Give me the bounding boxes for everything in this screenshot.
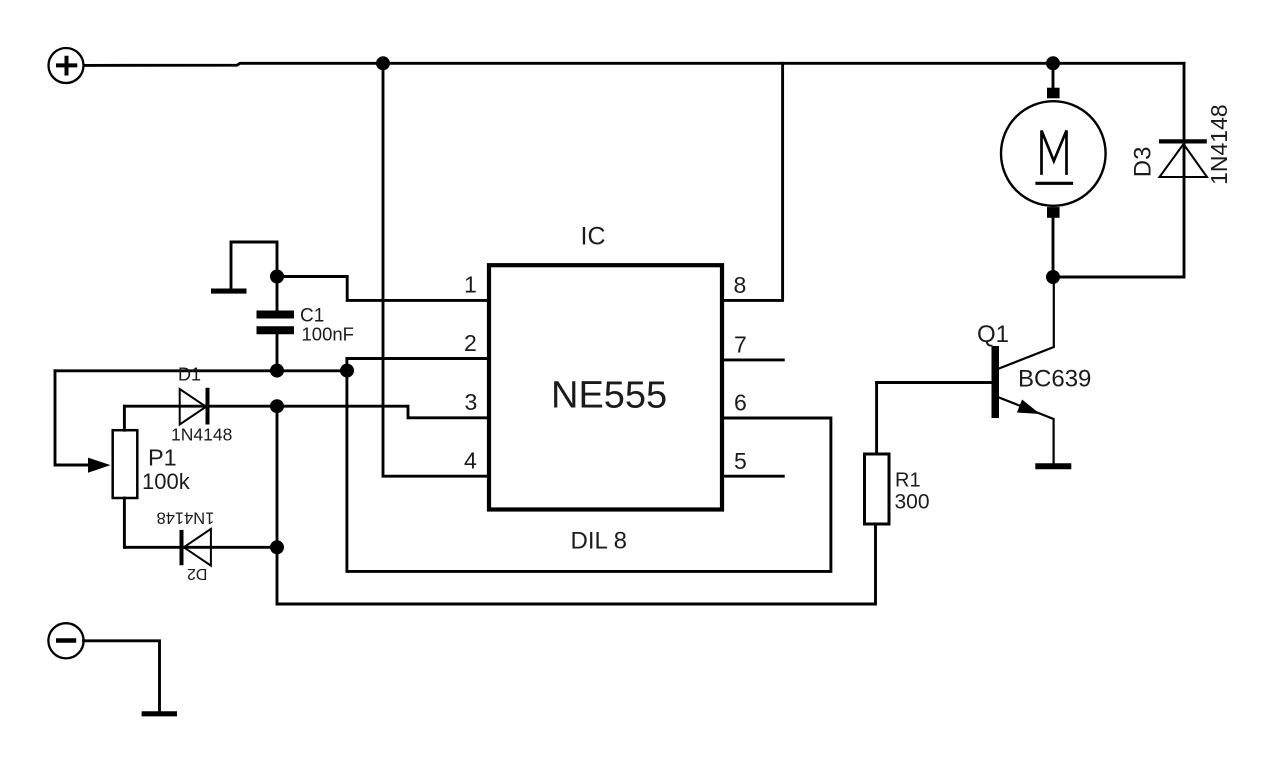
svg-text:D1: D1 (178, 365, 201, 385)
wire output node to R1 (277, 406, 876, 604)
svg-text:3: 3 (465, 389, 478, 415)
IC NE555 box (489, 265, 722, 509)
svg-text:4: 4 (464, 448, 477, 474)
svg-text:R1: R1 (895, 470, 921, 492)
svg-text:P1: P1 (148, 445, 177, 471)
junction node motor branch on rail (1046, 56, 1060, 70)
svg-text:5: 5 (734, 448, 747, 474)
wire D3 cathode to rail (1183, 63, 1186, 139)
node C1 top junction (270, 270, 284, 284)
svg-text:D2: D2 (187, 565, 208, 582)
motor M1 (1001, 63, 1106, 277)
svg-text:1: 1 (464, 272, 477, 298)
minus terminal (48, 623, 83, 658)
junction node pins 2-6 (340, 364, 354, 378)
svg-text:BC639: BC639 (1018, 366, 1091, 393)
svg-text:2: 2 (464, 330, 477, 356)
wire minus to ground (84, 641, 160, 711)
wire to pin 1 (277, 277, 487, 301)
svg-text:7: 7 (734, 332, 747, 358)
ground symbol at minus terminal (142, 711, 177, 716)
svg-text:IC: IC (581, 222, 606, 250)
diode D3 (1159, 141, 1207, 177)
plus terminal (49, 48, 84, 83)
diode D1 (124, 388, 277, 425)
junction node D2 output (270, 540, 284, 554)
svg-text:6: 6 (734, 390, 747, 416)
wire wiper line (55, 369, 347, 372)
junction node D1 output (270, 399, 284, 413)
svg-text:100nF: 100nF (302, 324, 354, 345)
wire motor node to D3 anode (1053, 177, 1184, 277)
svg-text:8: 8 (734, 272, 747, 298)
junction node C1 bottom (270, 364, 284, 378)
wire pin 8 to rail (724, 63, 783, 300)
resistor R1 (865, 383, 890, 525)
wire pin 2 to pin 6 loop (347, 359, 831, 572)
wire pin 7 stub (724, 358, 783, 361)
wire Vcc drop to pin 4 (383, 63, 487, 476)
wire to pin 3 (277, 406, 487, 418)
ground at Q1 emitter (1035, 463, 1071, 469)
ground symbol near C1 (211, 242, 277, 291)
wire pin 5 stub (724, 475, 783, 478)
wire top supply rail (84, 63, 1184, 65)
svg-text:1N4148: 1N4148 (171, 425, 232, 445)
svg-text:DIL 8: DIL 8 (571, 528, 627, 555)
diode D2 (124, 529, 277, 566)
svg-text:NE555: NE555 (551, 374, 667, 416)
svg-text:100k: 100k (142, 469, 191, 494)
potentiometer P1 (88, 406, 137, 547)
svg-text:1N4148: 1N4148 (156, 509, 214, 527)
wire base R1 to Q1 (877, 381, 992, 384)
svg-text:1N4148: 1N4148 (1206, 104, 1232, 185)
junction node motor/collector/D3 (1046, 270, 1060, 284)
svg-text:Q1: Q1 (977, 321, 1009, 348)
svg-text:300: 300 (895, 491, 930, 514)
junction node pin4 column on rail (376, 56, 390, 70)
transistor Q1 (992, 277, 1054, 463)
svg-text:D3: D3 (1129, 147, 1156, 178)
wire wiper drop to pot arrow (55, 371, 89, 465)
capacitor C1 (257, 277, 295, 371)
